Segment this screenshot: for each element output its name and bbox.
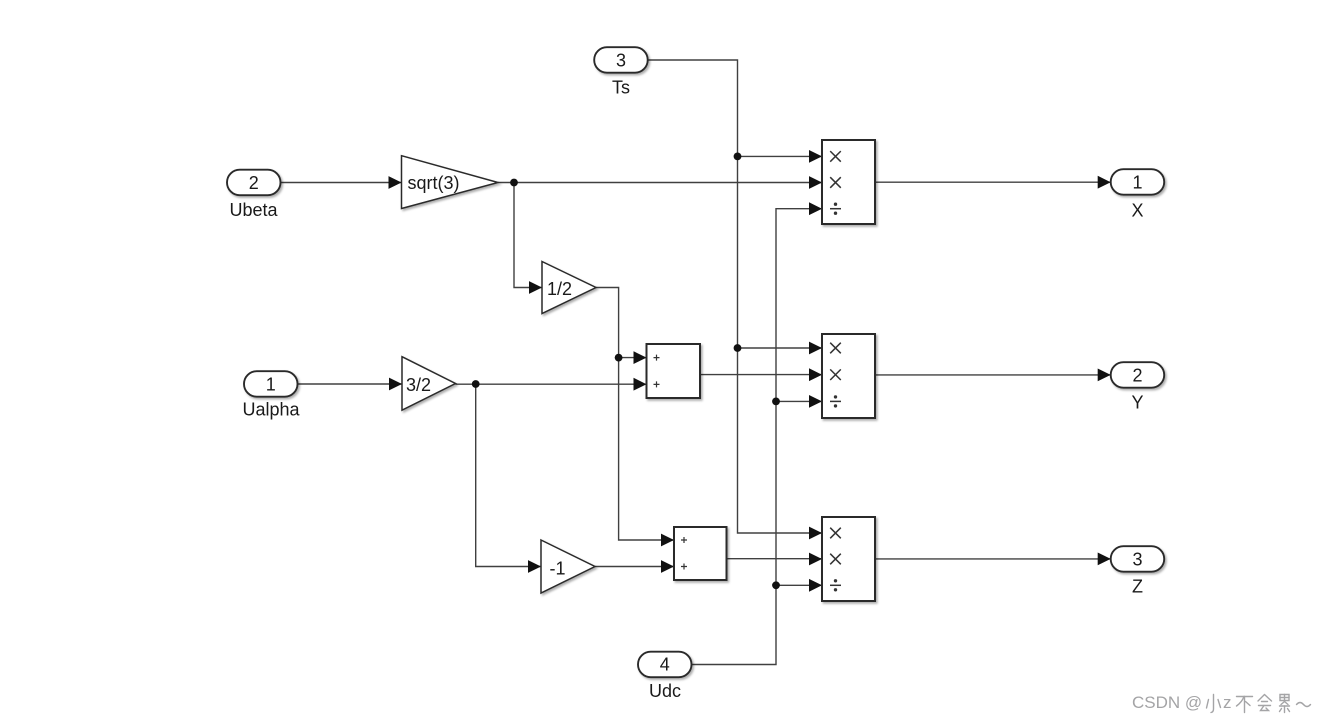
svg-text:3: 3 [1132,550,1142,570]
svg-text:1/2: 1/2 [547,279,572,299]
svg-text:Udc: Udc [649,681,681,701]
svg-text:2: 2 [1132,366,1142,386]
svg-text:z: z [1223,693,1232,712]
svg-text:Ts: Ts [612,78,630,98]
svg-text:Z: Z [1132,577,1143,597]
svg-text:Y: Y [1131,393,1143,413]
svg-text:3/2: 3/2 [406,375,431,395]
svg-text:-1: -1 [549,559,565,579]
svg-text:2: 2 [249,173,259,193]
svg-text:Ualpha: Ualpha [242,400,300,420]
svg-text:Ubeta: Ubeta [229,200,278,220]
svg-text:X: X [1131,201,1143,221]
svg-text:CSDN @: CSDN @ [1132,693,1202,712]
svg-text:1: 1 [1132,173,1142,193]
svg-text:1: 1 [266,375,276,395]
svg-text:4: 4 [660,655,670,675]
svg-text:sqrt(3): sqrt(3) [407,173,459,193]
svg-text:3: 3 [616,51,626,71]
